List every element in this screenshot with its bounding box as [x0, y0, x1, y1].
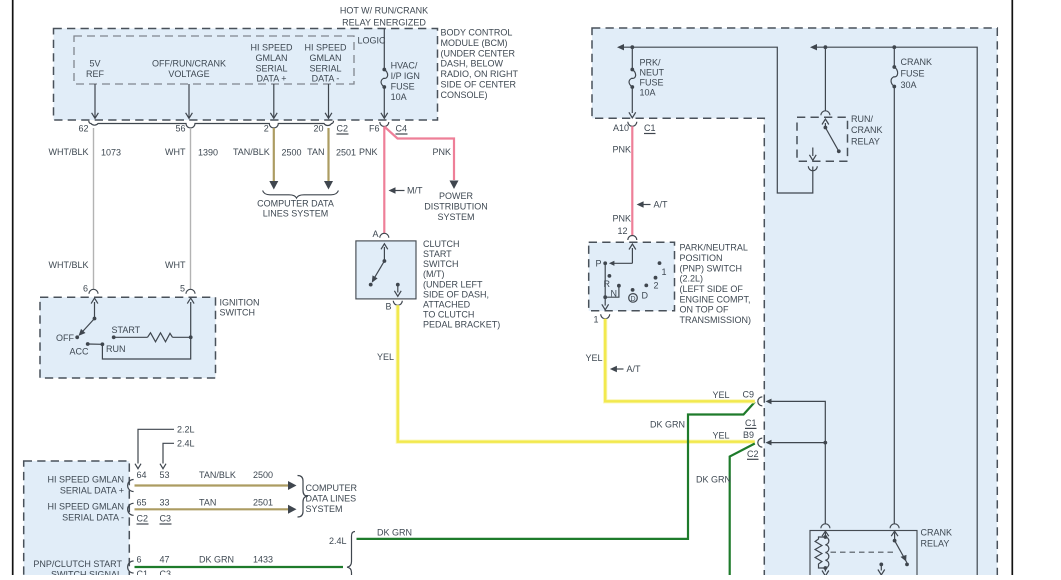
connector label C1 — [745, 418, 757, 429]
wire BCM logic to pin at x=273.8 — [273, 84, 275, 118]
svg-text:C9: C9 — [743, 390, 755, 400]
svg-text:START: START — [423, 249, 452, 259]
crank relay switch — [878, 531, 909, 575]
wire crank fuse to crank relay — [893, 87, 895, 525]
svg-text:(M/T): (M/T) — [423, 269, 445, 279]
label DK GRN — [199, 555, 234, 565]
svg-text:C1: C1 — [644, 123, 656, 133]
svg-text:HVAC/: HVAC/ — [391, 60, 418, 70]
connector label C4 — [396, 124, 408, 135]
svg-text:C3: C3 — [160, 514, 172, 524]
node COMPUTER DATA LINES SYSTEM lower — [306, 483, 358, 514]
label 5V REF — [86, 59, 105, 79]
svg-text:DATA LINES: DATA LINES — [306, 493, 357, 503]
svg-text:TAN: TAN — [307, 147, 324, 157]
connector label C3 lower — [160, 569, 172, 579]
label 1073 — [101, 148, 121, 158]
svg-text:DK GRN: DK GRN — [696, 475, 731, 485]
svg-text:YEL: YEL — [377, 352, 394, 362]
svg-text:CRANK: CRANK — [921, 527, 953, 537]
svg-text:1: 1 — [662, 267, 667, 277]
clutch switch location label — [423, 239, 500, 329]
svg-text:VOLTAGE: VOLTAGE — [168, 69, 209, 79]
pin 65 connector — [128, 498, 147, 516]
svg-text:2: 2 — [264, 124, 269, 134]
svg-text:ENGINE COMPT,: ENGINE COMPT, — [680, 294, 751, 304]
brace to computer data lines — [298, 476, 309, 518]
svg-text:COMPUTER DATA: COMPUTER DATA — [257, 199, 334, 209]
svg-text:SWITCH: SWITCH — [220, 308, 256, 318]
svg-text:C4: C4 — [396, 124, 408, 134]
svg-text:D: D — [642, 290, 649, 300]
svg-text:DK GRN: DK GRN — [199, 555, 234, 565]
pin 12 — [617, 226, 627, 236]
svg-text:1390: 1390 — [198, 148, 218, 158]
svg-text:47: 47 — [160, 555, 170, 565]
wire P to N link — [605, 263, 619, 297]
svg-text:WHT/BLK: WHT/BLK — [48, 147, 88, 157]
svg-text:CRANK: CRANK — [851, 125, 883, 135]
svg-text:1433: 1433 — [253, 555, 273, 565]
svg-text:HI SPEED: HI SPEED — [250, 43, 293, 53]
label TAN/BLK — [233, 147, 270, 157]
svg-text:PNK: PNK — [612, 214, 631, 224]
wire start to pin 5 — [187, 298, 194, 337]
under-hood fuse block region — [592, 28, 997, 578]
svg-text:WHT/BLK: WHT/BLK — [48, 260, 88, 270]
label DK GRN mid — [650, 419, 685, 429]
svg-text:HI SPEED: HI SPEED — [304, 43, 347, 53]
svg-text:FUSE: FUSE — [901, 68, 925, 78]
pin A10 connector C1 — [613, 122, 656, 134]
svg-text:A/T: A/T — [627, 364, 642, 374]
contact R — [604, 274, 612, 289]
label OFF/RUN/CRANK VOLTAGE — [152, 59, 226, 79]
pin 20 — [313, 124, 323, 134]
svg-text:B9: B9 — [743, 430, 754, 440]
svg-text:POSITION: POSITION — [680, 253, 723, 263]
svg-text:RADIO, ON RIGHT: RADIO, ON RIGHT — [441, 69, 519, 79]
pin 5 — [180, 284, 195, 294]
label HI SPEED GMLAN SERIAL DATA + — [250, 43, 293, 84]
svg-text:DK GRN: DK GRN — [377, 528, 412, 538]
node POWER DISTRIBUTION SYSTEM — [424, 191, 488, 222]
relay top connector — [821, 111, 830, 116]
svg-text:56: 56 — [175, 124, 185, 134]
svg-text:62: 62 — [78, 124, 88, 134]
svg-text:(PNP) SWITCH: (PNP) SWITCH — [680, 263, 743, 273]
callout 2.2L — [135, 425, 195, 469]
label A/T arrow — [637, 200, 668, 210]
svg-text:R: R — [604, 279, 611, 289]
connector label C3 — [160, 514, 172, 525]
label WHT/BLK — [48, 147, 88, 157]
left page border line — [12, 0, 14, 575]
BCM location label — [441, 28, 519, 100]
svg-text:PNK: PNK — [359, 147, 378, 157]
label 1390 — [198, 148, 218, 158]
crank relay switch connector — [890, 524, 899, 529]
svg-text:(LEFT SIDE OF: (LEFT SIDE OF — [680, 284, 744, 294]
label OFF — [56, 333, 74, 343]
crank relay coil — [815, 531, 829, 576]
wire run feedback loop — [102, 337, 190, 359]
node COMPUTER DATA LINES SYSTEM — [257, 199, 334, 219]
svg-text:LINES SYSTEM: LINES SYSTEM — [263, 209, 329, 219]
svg-text:SERIAL: SERIAL — [309, 63, 341, 73]
connector label C2 — [747, 449, 759, 460]
svg-text:SYSTEM: SYSTEM — [437, 212, 474, 222]
contact 2 — [654, 276, 659, 290]
wire WHT/BLK 1073 pin 62 to ignition pin 6 — [93, 128, 95, 289]
svg-text:TRANSMISSION): TRANSMISSION) — [680, 315, 752, 325]
clutch switch contacts — [369, 244, 401, 296]
svg-text:ACC: ACC — [69, 347, 89, 357]
PNP switch contacts — [603, 244, 636, 266]
svg-text:TO CLUTCH: TO CLUTCH — [423, 310, 474, 320]
svg-text:FUSE: FUSE — [391, 82, 415, 92]
svg-text:PNP/CLUTCH START: PNP/CLUTCH START — [33, 559, 122, 569]
svg-text:20: 20 — [313, 124, 323, 134]
svg-text:OFF/RUN/CRANK: OFF/RUN/CRANK — [152, 59, 226, 69]
run/crank relay label — [851, 114, 883, 147]
svg-text:2500: 2500 — [253, 470, 273, 480]
label WHT/BLK lower — [48, 260, 88, 270]
svg-text:F6: F6 — [369, 124, 380, 134]
svg-text:2.4L: 2.4L — [329, 536, 347, 546]
ignition switch contacts — [75, 298, 98, 339]
svg-text:12: 12 — [617, 226, 627, 236]
svg-text:SERIAL: SERIAL — [255, 63, 287, 73]
connector label C2 — [137, 514, 149, 525]
svg-text:C2: C2 — [137, 514, 149, 524]
label TAN — [199, 498, 216, 508]
contact 1 — [658, 261, 667, 277]
svg-text:5V: 5V — [89, 59, 100, 69]
connector label C2 — [337, 124, 349, 135]
svg-text:SIDE OF CENTER: SIDE OF CENTER — [441, 80, 517, 90]
svg-text:A/T: A/T — [654, 200, 669, 210]
svg-text:10A: 10A — [391, 92, 407, 102]
connector C2 bar with pins 62,56,2,20 — [89, 121, 334, 128]
crank relay coil connector — [821, 524, 830, 529]
wire TAN/BLK 2500 to computer data lines — [135, 484, 289, 486]
pin 6 — [83, 284, 98, 294]
svg-text:P: P — [595, 259, 601, 269]
svg-text:FUSE: FUSE — [640, 78, 664, 88]
BCM logic block — [74, 36, 354, 84]
brace computer data lines — [263, 191, 339, 199]
svg-text:DISTRIBUTION: DISTRIBUTION — [424, 202, 488, 212]
svg-text:ATTACHED: ATTACHED — [423, 299, 471, 309]
label WHT lower — [165, 260, 186, 270]
pin 1 connector — [593, 314, 609, 324]
svg-text:HI SPEED GMLAN: HI SPEED GMLAN — [47, 501, 124, 511]
svg-text:GMLAN: GMLAN — [255, 53, 287, 63]
svg-text:DATA +: DATA + — [257, 74, 287, 84]
svg-text:RELAY: RELAY — [921, 538, 950, 548]
svg-text:REF: REF — [86, 69, 105, 79]
svg-text:WHT: WHT — [165, 147, 186, 157]
svg-text:2501: 2501 — [253, 498, 273, 508]
svg-text:RELAY ENERGIZED: RELAY ENERGIZED — [342, 18, 426, 28]
svg-text:A: A — [372, 229, 378, 239]
svg-text:(UNDER CENTER: (UNDER CENTER — [441, 48, 516, 58]
wire TAN 2501 pin 20 — [327, 128, 329, 181]
label YEL — [377, 352, 394, 362]
svg-text:I/P IGN: I/P IGN — [391, 71, 420, 81]
svg-text:33: 33 — [160, 498, 170, 508]
svg-text:COMPUTER: COMPUTER — [306, 483, 358, 493]
svg-text:PEDAL BRACKET): PEDAL BRACKET) — [423, 320, 500, 330]
svg-text:A10: A10 — [613, 123, 629, 133]
svg-text:LOGIC: LOGIC — [358, 36, 387, 46]
pin B9 — [743, 430, 762, 447]
svg-text:HOT W/ RUN/CRANK: HOT W/ RUN/CRANK — [340, 6, 428, 16]
PCM box bottom-left — [24, 461, 130, 580]
brace 2.4L group — [347, 532, 355, 579]
wire DK GRN 1433 — [135, 566, 344, 568]
svg-text:6: 6 — [83, 284, 88, 294]
contact RUN — [88, 342, 126, 354]
svg-text:PARK/NEUTRAL: PARK/NEUTRAL — [680, 243, 748, 253]
pin 6 connector lower — [128, 555, 142, 573]
svg-text:SWITCH SIGNAL: SWITCH SIGNAL — [51, 570, 122, 576]
wire BCM logic to pin at x=189 — [188, 84, 190, 118]
svg-text:B: B — [385, 302, 391, 312]
label 2501 — [253, 498, 273, 508]
svg-text:64: 64 — [137, 470, 147, 480]
svg-text:M/T: M/T — [407, 186, 423, 196]
svg-text:SIDE OF DASH,: SIDE OF DASH, — [423, 289, 489, 299]
wire B9 into fuse block — [766, 440, 828, 524]
svg-text:MODULE (BCM): MODULE (BCM) — [441, 38, 508, 48]
svg-text:D: D — [630, 296, 635, 303]
svg-text:START: START — [112, 325, 141, 335]
pin F6 connector C4 — [380, 122, 389, 127]
label 2500 — [253, 470, 273, 480]
clutch start switch S1 box — [356, 241, 416, 299]
svg-text:CLUTCH: CLUTCH — [423, 239, 460, 249]
label YEL at C9 — [712, 390, 729, 400]
label PNK right — [433, 147, 452, 157]
label 2500 — [282, 148, 302, 158]
svg-text:C1: C1 — [745, 418, 757, 428]
svg-text:NEUT: NEUT — [640, 68, 665, 78]
svg-text:RUN: RUN — [106, 344, 126, 354]
svg-text:SWITCH: SWITCH — [423, 259, 459, 269]
resistor in ignition start circuit — [112, 333, 193, 342]
label M/T arrow — [389, 186, 423, 196]
label A/T arrow — [610, 364, 641, 374]
right page border line — [1011, 0, 1013, 575]
svg-text:TAN/BLK: TAN/BLK — [199, 470, 236, 480]
wire BCM logic to pin at x=328.5 — [328, 84, 330, 118]
svg-text:C3: C3 — [160, 569, 172, 575]
label 2.4L — [329, 536, 347, 546]
wire fused feed to BCM — [617, 44, 813, 193]
contact ACC — [69, 342, 89, 357]
body control module U1 (BCM) box — [54, 29, 438, 121]
svg-text:YEL: YEL — [585, 353, 602, 363]
ignition switch label — [220, 297, 260, 317]
PNP switch top connector — [628, 236, 637, 241]
pin 47 — [160, 555, 170, 565]
svg-text:POWER: POWER — [439, 191, 474, 201]
label DK GRN lower — [696, 475, 731, 485]
svg-text:2501: 2501 — [336, 148, 356, 158]
wire to run/crank relay coil — [824, 47, 826, 111]
pin 64 connector — [128, 470, 147, 492]
callout 2.4L — [160, 439, 195, 469]
park/neutral position switch S3 box — [589, 242, 675, 310]
svg-text:IGNITION: IGNITION — [220, 297, 260, 307]
pin 56 — [175, 124, 185, 134]
svg-text:(UNDER LEFT: (UNDER LEFT — [423, 279, 483, 289]
contact D circled — [629, 288, 638, 303]
svg-text:RUN/: RUN/ — [851, 114, 873, 124]
contact P — [595, 259, 601, 269]
svg-text:C2: C2 — [747, 449, 759, 459]
label 2501 — [336, 148, 356, 158]
svg-text:6: 6 — [137, 555, 142, 565]
label HI SPEED GMLAN SERIAL DATA + — [47, 475, 124, 496]
contact D — [642, 284, 649, 301]
svg-text:WHT: WHT — [165, 260, 186, 270]
label YEL at B9 — [712, 431, 729, 441]
pin 2 — [264, 124, 269, 134]
svg-text:PRK/: PRK/ — [640, 58, 662, 68]
pin C9 — [743, 390, 763, 406]
svg-text:YEL: YEL — [712, 390, 729, 400]
svg-text:GMLAN: GMLAN — [309, 53, 341, 63]
pin B connector — [385, 301, 402, 312]
wire PNK A10 to PNP switch 12 — [631, 126, 633, 235]
wire YEL PNP pin1 to C9 — [605, 319, 755, 402]
wire TAN/BLK 2500 pin 2 — [273, 128, 275, 181]
run/crank relay K1 box — [797, 117, 848, 161]
PNP location label — [680, 243, 752, 326]
label TAN/BLK — [199, 470, 236, 480]
svg-text:2500: 2500 — [282, 148, 302, 158]
svg-text:BODY CONTROL: BODY CONTROL — [441, 28, 513, 38]
svg-text:CRANK: CRANK — [901, 57, 933, 67]
wire TAN 2501 — [135, 508, 289, 510]
wire PNK F6 branch to power distribution — [384, 127, 454, 181]
svg-text:53: 53 — [160, 470, 170, 480]
contact N — [611, 284, 621, 299]
crank relay label — [921, 527, 953, 548]
label PNP/CLUTCH START SWITCH SIGNAL — [33, 559, 122, 580]
relay bottom connector — [808, 166, 817, 171]
label WHT — [165, 147, 186, 157]
svg-text:DASH, BELOW: DASH, BELOW — [441, 59, 504, 69]
svg-text:2.2L: 2.2L — [177, 425, 195, 435]
svg-text:HI SPEED GMLAN: HI SPEED GMLAN — [47, 475, 124, 485]
wire hot feed to relay and crank fuse — [810, 44, 977, 578]
fuse CRANK 30A — [891, 47, 932, 90]
label DK GRN top — [377, 528, 412, 538]
relay switch — [822, 119, 841, 153]
ignition switch S2 box — [40, 297, 216, 378]
crank relay internal dashed link — [831, 551, 894, 553]
svg-text:RELAY: RELAY — [851, 137, 880, 147]
svg-text:DATA -: DATA - — [312, 74, 340, 84]
svg-text:5: 5 — [180, 284, 185, 294]
PNP output arrow — [602, 297, 609, 310]
wire DK GRN from B9 down — [730, 444, 755, 579]
svg-text:SERIAL DATA +: SERIAL DATA + — [60, 486, 124, 496]
svg-text:OFF: OFF — [56, 333, 74, 343]
label PNK lower — [612, 214, 631, 224]
svg-text:CONSOLE): CONSOLE) — [441, 90, 488, 100]
label PNK — [612, 145, 631, 155]
wire C9 into fuse block — [766, 399, 826, 443]
svg-text:C2: C2 — [337, 124, 349, 134]
wire YEL clutch B to B9 — [398, 305, 755, 442]
svg-text:C1: C1 — [137, 569, 149, 575]
svg-text:PNK: PNK — [433, 147, 452, 157]
svg-text:2.4L: 2.4L — [177, 439, 195, 449]
svg-text:10A: 10A — [640, 88, 656, 98]
wire DK GRN 2.4L to C1 — [357, 402, 755, 539]
svg-text:SERIAL DATA -: SERIAL DATA - — [62, 512, 124, 522]
fuse HVAC/IP IGN 10A — [381, 29, 420, 119]
label START — [112, 325, 141, 335]
wire PNK F6 to clutch start switch A — [383, 127, 385, 234]
svg-text:TAN: TAN — [199, 498, 216, 508]
connector label C1 lower — [137, 569, 149, 579]
svg-text:65: 65 — [137, 498, 147, 508]
label YEL — [585, 353, 602, 363]
svg-text:SYSTEM: SYSTEM — [306, 504, 343, 514]
pin 33 — [160, 498, 170, 508]
relay output arrow — [809, 148, 816, 161]
crank relay K2 box — [810, 531, 917, 579]
svg-text:(2.2L): (2.2L) — [680, 274, 704, 284]
label TAN — [307, 147, 324, 157]
wire BCM logic to pin at x=95 — [94, 84, 96, 118]
svg-text:30A: 30A — [901, 80, 917, 90]
svg-text:DK GRN: DK GRN — [650, 419, 685, 429]
svg-text:YEL: YEL — [712, 431, 729, 441]
node HOT W/ RUN/CRANK RELAY ENERGIZED — [340, 6, 428, 28]
svg-text:1: 1 — [593, 314, 598, 324]
svg-text:TAN/BLK: TAN/BLK — [233, 147, 270, 157]
wire WHT 1390 pin 56 to ignition pin 5 — [190, 128, 192, 289]
svg-text:ON TOP OF: ON TOP OF — [680, 305, 730, 315]
pin 53 — [160, 470, 170, 480]
label PNK left — [359, 147, 378, 157]
svg-text:PNK: PNK — [612, 145, 631, 155]
label LOGIC — [358, 36, 387, 46]
label HI SPEED GMLAN SERIAL DATA - — [304, 43, 347, 84]
svg-text:2: 2 — [654, 280, 659, 290]
fuse PRK/NEUT 10A — [629, 47, 665, 118]
label HI SPEED GMLAN SERIAL DATA - — [47, 501, 124, 522]
label 1433 — [253, 555, 273, 565]
pin A connector — [372, 229, 388, 239]
svg-text:1073: 1073 — [101, 148, 121, 158]
pin 62 — [78, 124, 88, 134]
